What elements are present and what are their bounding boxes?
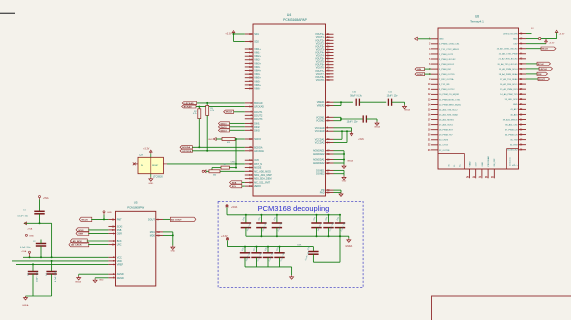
ground GND at U5 xyxy=(93,278,104,283)
wire DGND to GND xyxy=(95,277,108,279)
svg-text:19_A5_PWM_SCL0: 19_A5_PWM_SCL0 xyxy=(499,68,518,71)
U8 pin left 18 27_A13_SCK1 xyxy=(428,124,454,127)
global label BCKDA xyxy=(180,146,192,150)
svg-text:GND: GND xyxy=(482,162,484,167)
svg-text:PAD: PAD xyxy=(320,191,325,194)
svg-text:GND: GND xyxy=(342,181,347,183)
svg-text:DGND2: DGND2 xyxy=(316,173,325,176)
svg-text:4.7k: 4.7k xyxy=(210,110,214,112)
svg-text:35_TX8: 35_TX8 xyxy=(510,140,518,142)
power +5V at Teensy VIN xyxy=(555,30,565,35)
U4 pin 16 VIN2- xyxy=(245,59,261,62)
capacitor C22 0.1uF / 16v xyxy=(272,215,283,236)
svg-text:VCC2AD: VCC2AD xyxy=(315,130,325,133)
svg-text:26_A12_MOSI1: 26_A12_MOSI1 xyxy=(439,118,455,121)
global label LRCKDA xyxy=(180,149,192,153)
U4 pin 23 VIN5+ xyxy=(245,77,262,80)
svg-text:LRCLK: LRCLK xyxy=(540,69,548,71)
global label AD_BCK xyxy=(70,239,87,243)
capacitor C20 10uF / 16v xyxy=(241,215,252,236)
svg-text:GND: GND xyxy=(208,139,213,141)
svg-text:RST_N: RST_N xyxy=(254,163,262,166)
junction at SCKO wire xyxy=(235,138,237,140)
U4 pin 41 VOUT6+ xyxy=(315,64,333,67)
svg-text:12_PWM_MISO_MQSL: 12_PWM_MISO_MQSL xyxy=(439,104,462,106)
power +5VA in decoupling box xyxy=(226,205,238,209)
U8 pin right 36_PWM_CS xyxy=(505,134,526,136)
power GND flag at U5 top xyxy=(103,211,112,215)
wire C10 to C11 xyxy=(359,101,386,103)
U5 pin 8 DGND xyxy=(108,277,124,280)
junction R8 net xyxy=(211,170,213,172)
global label DAC1 xyxy=(218,122,229,126)
U4 pin 19 VREF1 xyxy=(317,101,334,104)
U8 pin right 16_A2_RX4_SCL1 xyxy=(500,83,526,86)
wire BCLK to label xyxy=(526,63,537,65)
U8 pin left 20 29_PWM_TX7 xyxy=(428,135,454,137)
svg-text:OSC: OSC xyxy=(231,162,236,164)
junction FMT xyxy=(103,218,105,220)
U4 pin 2 DOUT2 xyxy=(245,114,263,117)
svg-text:20_A6_TX5_LRCLK1: 20_A6_TX5_LRCLK1 xyxy=(498,63,519,66)
ground GND at R8 xyxy=(202,170,206,173)
wire decoupling bottom ground rail xyxy=(245,267,292,275)
junction VDD 2 xyxy=(51,256,53,258)
junction C30 gnd xyxy=(339,235,341,237)
svg-text:34_RX8: 34_RX8 xyxy=(510,145,518,147)
U4 pin 47 AGNDAD1 xyxy=(313,150,334,153)
ground GNDA decoupling right xyxy=(345,238,352,248)
wire VREF rail xyxy=(16,263,108,265)
U8 pin bottom GND xyxy=(479,162,484,179)
svg-text:10uF / 16v: 10uF / 16v xyxy=(36,271,38,282)
wire node horizontal xyxy=(24,223,52,257)
U8 pin right 19_A5_PWM_SCL0 xyxy=(499,68,526,71)
U5 pin 10 LRC xyxy=(108,244,121,247)
U4 pin 49 PD xyxy=(321,189,333,192)
svg-text:T+: T+ xyxy=(518,164,520,166)
U4 pin 52 MC_SCL_FMT xyxy=(245,181,271,184)
svg-text:VREF: VREF xyxy=(117,263,124,266)
U5 pin 6 DOUT xyxy=(148,218,163,221)
wire OSR label to pin xyxy=(88,232,108,234)
wire C30 to gnd rail xyxy=(313,236,340,262)
svg-text:+3.3V: +3.3V xyxy=(549,42,555,44)
svg-text:MD0: MD0 xyxy=(150,234,156,237)
svg-text:VIN1+: VIN1+ xyxy=(254,48,261,51)
global label AD_LRCK xyxy=(69,243,89,247)
wire VCC pins to +5VA xyxy=(334,128,352,143)
svg-text:SD1: SD1 xyxy=(254,33,259,36)
U4 pin 22 VIN4- xyxy=(245,73,261,76)
svg-text:MCLK: MCLK xyxy=(82,219,89,221)
U8 pin right 35_TX8 xyxy=(510,140,526,142)
junction C23 top xyxy=(316,214,318,216)
wire DAC2 to DIN2 xyxy=(230,126,245,128)
junction C22 top xyxy=(276,214,278,216)
U4 pin 24 VIN5- xyxy=(245,80,261,83)
U4 pin 61 OVF xyxy=(245,159,260,162)
svg-text:Teensy4.1: Teensy4.1 xyxy=(470,19,484,23)
wire DAC3 to DIN3 xyxy=(230,129,245,131)
svg-text:VIN2+: VIN2+ xyxy=(254,55,261,58)
U8 pin bottom 3.3V xyxy=(472,162,477,179)
wire DAC1 to DIN1 xyxy=(230,122,245,124)
wire vertical SCKO to osc net xyxy=(235,139,237,168)
resistor R7 xyxy=(221,164,229,169)
U4 pin 17 AGNDDA2 xyxy=(313,162,334,165)
svg-text:PCM1808PW: PCM1808PW xyxy=(127,205,144,209)
wire GND flag to FMT xyxy=(103,215,105,220)
svg-text:DOUT: DOUT xyxy=(417,74,424,76)
svg-text:AGND: AGND xyxy=(117,273,124,276)
resistor R2 xyxy=(193,107,201,119)
U8 pin right 3.3V xyxy=(513,43,526,46)
resistor R8 xyxy=(206,170,220,177)
power flag PWR xyxy=(539,37,541,39)
U4 pin 40 VOUT5- xyxy=(316,61,334,64)
power +5VA at U5 VCC xyxy=(21,250,31,257)
global label BCLK at U8 xyxy=(537,62,551,66)
wire cap C4 top stub xyxy=(51,261,53,272)
wire R3 to LRCKDA net xyxy=(206,115,208,150)
svg-text:DAC3: DAC3 xyxy=(221,129,228,132)
power +5VA at U4 xyxy=(350,131,364,141)
oscillator U7 body xyxy=(138,157,163,173)
svg-text:VIN4+: VIN4+ xyxy=(254,69,261,72)
U4 pin 8 VCC1AD xyxy=(315,127,334,130)
U4 pin 33 VOUT2+ xyxy=(315,39,333,42)
power GND flag left xyxy=(25,234,34,237)
svg-text:AD_DOUT: AD_DOUT xyxy=(171,218,182,221)
svg-text:32_OUT1B: 32_OUT1B xyxy=(439,150,450,152)
svg-text:VIN5-: VIN5- xyxy=(254,80,260,83)
svg-text:GND: GND xyxy=(107,212,112,214)
svg-text:GNDA: GNDA xyxy=(22,304,29,307)
svg-text:SCKO: SCKO xyxy=(254,138,261,141)
ground GND decoupling bottom xyxy=(290,275,294,279)
U8 pin bottom PROGRAM xyxy=(485,156,490,179)
U8 pin left 16 25_A11_RX6_SDA2 xyxy=(428,113,459,116)
svg-text:RESET: RESET xyxy=(152,165,159,167)
U4 pin 44 VOUT7- xyxy=(316,73,334,76)
wire VUSB stub xyxy=(526,33,532,35)
U8 pin left 22 31_CTX3 xyxy=(428,145,449,147)
svg-text:+3.3V: +3.3V xyxy=(225,34,232,36)
U4 pin 12 VREF2 xyxy=(317,104,334,107)
svg-text:GND: GND xyxy=(513,104,518,106)
U8 pin left 7 5_PWM_IN2 xyxy=(429,69,452,71)
svg-text:VIN3+: VIN3+ xyxy=(254,62,261,65)
wire R6 to SCKO pin xyxy=(235,138,245,140)
svg-text:MD1_AD1_MSP: MD1_AD1_MSP xyxy=(254,174,272,177)
wire C2 stubs xyxy=(40,240,42,258)
svg-text:BCLK: BCLK xyxy=(538,64,544,66)
wire +5VA rail top xyxy=(227,207,340,214)
U8 pin left 4 2_PWM_OUT2 xyxy=(429,53,454,56)
junction MD xyxy=(172,234,174,236)
svg-text:LRCKAD: LRCKAD xyxy=(254,106,264,109)
U4 pin 55 MC_AD0_MOD xyxy=(245,170,271,173)
U8 pin right 13_LED_SCK xyxy=(505,99,526,101)
wire SDA to pin xyxy=(242,181,245,183)
U4 pin 32 VOUT1- xyxy=(316,36,334,39)
svg-text:14_A0_PWM_TX3: 14_A0_PWM_TX3 xyxy=(500,93,518,96)
svg-text:U5: U5 xyxy=(134,200,138,204)
wire decoupling top row ground rail xyxy=(246,236,349,238)
capacitor C12 10uF xyxy=(347,115,367,123)
junction C26 top xyxy=(244,246,246,248)
svg-text:+3.3V: +3.3V xyxy=(143,149,150,151)
wire AD_BCK to BCK xyxy=(87,240,109,242)
global label MCLK at U8 xyxy=(541,47,556,51)
U8 pin left 3 1_TX1_CTX2_MISO1 xyxy=(429,49,460,51)
U4 pin 36 VOUT3- xyxy=(316,48,334,51)
U4 pin 34 VOUT2- xyxy=(316,42,334,45)
junction C21 top xyxy=(260,214,262,216)
resistor R3 xyxy=(206,103,214,116)
U8 pin left 10 8_TX2_IN1 xyxy=(428,84,451,86)
svg-text:SCL: SCL xyxy=(232,186,237,188)
global label SDA xyxy=(230,181,242,185)
U8 pin right GND xyxy=(513,38,526,41)
wire DIN to label xyxy=(526,73,537,75)
wire ground rail bottom-left xyxy=(26,295,52,297)
svg-text:MCLK: MCLK xyxy=(226,112,233,114)
svg-text:GND: GND xyxy=(513,39,518,41)
junction C27 top xyxy=(256,246,258,248)
junction gnd rail xyxy=(260,235,262,237)
wire cap C3 top stub xyxy=(32,264,34,271)
U8 pin bottom ON_OFF xyxy=(491,158,496,179)
junction +5VA node xyxy=(39,222,41,224)
wire flag to +5V arrow xyxy=(541,32,557,39)
wire +3.3V rail xyxy=(228,240,314,246)
svg-text:+5VA: +5VA xyxy=(231,205,237,209)
U8 pin right (VIN to 5V) VIN xyxy=(503,32,526,35)
power +3.3V in decoupling box xyxy=(221,235,229,240)
svg-text:DIN: DIN xyxy=(417,69,421,71)
svg-text:BCK: BCK xyxy=(117,240,122,243)
U4 pin 25 VIN6+ xyxy=(245,84,262,87)
wire BCKDA to pin xyxy=(192,146,245,148)
U4 pin 7 VCC2AD xyxy=(315,130,334,133)
U4 pin 51 ZERO xyxy=(245,185,261,188)
svg-text:GND: GND xyxy=(29,235,34,237)
wire C1 to node xyxy=(39,214,41,224)
global label DAC3 xyxy=(218,129,229,133)
wire R8 to U4 pin xyxy=(220,170,245,172)
U5 pin 1 OSR xyxy=(108,232,122,235)
svg-text:25_A11_RX6_SDA2: 25_A11_RX6_SDA2 xyxy=(439,113,459,116)
U4 pin 64 VCCDA2 xyxy=(315,141,334,144)
capacitor C26 100uF / 16v xyxy=(240,247,251,267)
U7 pin right OUT xyxy=(163,163,167,165)
svg-text:GNDA: GNDA xyxy=(347,160,353,163)
U4 pin 17 VIN3+ xyxy=(245,62,262,65)
svg-text:GND: GND xyxy=(439,39,444,41)
junction R7/vertical xyxy=(235,167,237,169)
wire DGND pins join xyxy=(334,170,345,175)
global label DOUT at U8 xyxy=(538,77,550,81)
wire C3 bottom xyxy=(32,274,34,296)
U4 pin 48 AGNDAD2 xyxy=(313,153,334,156)
svg-text:LRCKAD: LRCKAD xyxy=(184,102,194,105)
svg-text:28_PWM_RX7: 28_PWM_RX7 xyxy=(439,130,454,132)
global label OSR xyxy=(76,231,89,235)
ground GND at MD pins xyxy=(171,246,176,253)
junction VDD rail xyxy=(51,260,53,262)
capacitor C25 0.1uF / 16v xyxy=(335,215,346,236)
U8 pin right 39_A15_MISO1 xyxy=(503,118,526,121)
svg-text:OSR: OSR xyxy=(117,232,122,235)
svg-text:38_A14_CS1: 38_A14_CS1 xyxy=(505,123,518,126)
wire R2 to BCKDA net xyxy=(198,119,200,148)
svg-text:7_RX2_OUT1A: 7_RX2_OUT1A xyxy=(439,78,454,81)
U4 pin 57 DGND1 xyxy=(316,169,333,172)
svg-text:8_TX2_IN1: 8_TX2_IN1 xyxy=(439,84,450,86)
svg-text:DOUT3: DOUT3 xyxy=(254,118,263,121)
svg-text:LRCKDA: LRCKDA xyxy=(254,150,264,153)
svg-text:VCCDA2: VCCDA2 xyxy=(315,141,325,144)
svg-text:37_PWM_CS: 37_PWM_CS xyxy=(505,129,518,131)
svg-text:+5VA: +5VA xyxy=(43,197,49,200)
capacitor C30 0.1uF xyxy=(305,246,319,262)
global label SCL xyxy=(230,185,242,189)
svg-text:VIN6-: VIN6- xyxy=(254,87,260,90)
svg-text:PCM3168 decoupling: PCM3168 decoupling xyxy=(258,204,330,213)
svg-text:GND: GND xyxy=(171,250,176,252)
svg-text:3_PWM_LRCLK2: 3_PWM_LRCLK2 xyxy=(439,59,456,61)
U4 pin 10 LRCKAD xyxy=(245,106,264,109)
svg-text:40_A16: 40_A16 xyxy=(510,113,518,116)
U4 pin 56 MODE xyxy=(245,167,262,170)
U8 pin left 6 4_PWM_BCLK2 xyxy=(429,64,455,66)
ground GND at U8 pin1 xyxy=(415,37,431,40)
U4 pin 42 VOUT6- xyxy=(316,67,334,70)
wire +5VA to C1 xyxy=(39,199,41,211)
capacitor C23 1uF / 16v xyxy=(311,215,322,236)
svg-text:39_A15_MISO1: 39_A15_MISO1 xyxy=(503,118,519,121)
U8 pin bottom VBAT xyxy=(466,161,471,179)
global label DAC2 xyxy=(218,125,229,129)
svg-text:BCKAD: BCKAD xyxy=(254,102,263,105)
U4 pin 1 DOUT3 xyxy=(245,118,263,121)
svg-text:DOUT: DOUT xyxy=(539,79,546,81)
svg-text:+5VA: +5VA xyxy=(21,250,27,253)
U5 pin 14 FSB xyxy=(108,229,121,232)
junction C24 top xyxy=(328,214,330,216)
junction C2 top xyxy=(40,256,42,258)
U4 pin 33 SCKO xyxy=(245,138,261,141)
U5 pin 13 SCKI xyxy=(108,225,122,228)
global label LRCLK at U8 xyxy=(539,67,553,71)
wire AGND pins join xyxy=(334,151,345,165)
U8 pin left 13 11_PWM_MOSI_CTX1 xyxy=(428,99,461,101)
svg-text:VOUT8-: VOUT8- xyxy=(316,79,325,82)
Teensy USB section divider xyxy=(438,154,465,169)
U8 pin left 11 9_PWM_OUT1C xyxy=(428,89,455,91)
svg-text:0.1uF / 16v: 0.1uF / 16v xyxy=(20,247,31,249)
svg-text:AGNDDA2: AGNDDA2 xyxy=(313,162,325,165)
junction C20 top xyxy=(245,214,247,216)
svg-text:LRCKDA: LRCKDA xyxy=(182,150,192,153)
svg-text:16_A2_RX4_SCL1: 16_A2_RX4_SCL1 xyxy=(500,83,518,86)
wire MCLK1 to label xyxy=(526,48,541,50)
wire DOUT to label xyxy=(526,78,538,80)
svg-text:MC_SCL_FMT: MC_SCL_FMT xyxy=(254,181,270,184)
Teensy USB pin names xyxy=(449,163,462,166)
svg-text:(VIN to 5V) VIN: (VIN to 5V) VIN xyxy=(503,32,518,35)
capacitor C28 0.1uF / 16v xyxy=(263,247,274,267)
svg-text:22_A8_CTX1_PWM: 22_A8_CTX1_PWM xyxy=(499,53,518,56)
wire LRCKAD to pin xyxy=(197,102,245,104)
U5 pin 15 MD0 xyxy=(150,234,163,237)
svg-text:BCKDA: BCKDA xyxy=(182,146,190,149)
svg-text:VCC: VCC xyxy=(117,256,122,259)
svg-text:GND: GND xyxy=(99,280,104,282)
dashed box PCM3168 decoupling xyxy=(218,202,363,288)
svg-text:4.7uF / 16v: 4.7uF / 16v xyxy=(55,270,57,282)
junction LRCKDA/R3 xyxy=(206,150,208,152)
svg-text:+3.3V: +3.3V xyxy=(559,34,565,36)
separator line top-left xyxy=(0,12,15,14)
wire VIN to power flag xyxy=(526,38,538,40)
capacitor C4 4.7uF xyxy=(46,270,57,282)
U8 pin left 8 6_PWM_OUT1D xyxy=(429,74,455,76)
U4 pin 3 DIN1 xyxy=(245,122,261,125)
svg-text:VIN3-: VIN3- xyxy=(254,66,260,69)
wire R7 right to vertical xyxy=(229,167,236,169)
wire 3.3V pin xyxy=(526,43,546,45)
wire LRCLK to label xyxy=(526,68,539,70)
IC U8 Teensy4.1 body xyxy=(438,28,519,169)
svg-text:56uF / 6.3v: 56uF / 6.3v xyxy=(350,95,362,97)
svg-text:OVF: OVF xyxy=(254,159,259,162)
power +3.3V at Teensy xyxy=(545,39,555,44)
svg-text:MODE: MODE xyxy=(254,167,262,170)
U8 pin left 19 28_PWM_RX7 xyxy=(428,130,454,132)
svg-text:LRC: LRC xyxy=(117,244,122,247)
junction VREF xyxy=(340,101,342,103)
sheet outline bottom-right xyxy=(432,296,571,320)
ground GNDA at AGND xyxy=(342,160,354,169)
U8 pin right 18_A4_PWM_SDA0 xyxy=(499,73,526,76)
svg-text:VIN1-: VIN1- xyxy=(254,52,260,55)
U8 pin left 12 10_PWM_CS_MQSR xyxy=(428,94,460,96)
U4 pin 13 VIN1+ xyxy=(245,48,262,51)
svg-text:33_MCLK2: 33_MCLK2 xyxy=(507,150,518,152)
wire VREF pins join xyxy=(334,102,353,105)
U8 pin right 23_A9_CRX1_MCLK1 xyxy=(497,48,526,51)
global label MCLK xyxy=(224,110,234,114)
svg-text:30_CRX3: 30_CRX3 xyxy=(439,140,449,142)
U5 pin 3 AGND xyxy=(108,273,123,276)
svg-text:9_PWM_OUT1C: 9_PWM_OUT1C xyxy=(439,89,455,91)
ground GNDA at VREF caps xyxy=(403,105,411,112)
global label DIN at U8 xyxy=(415,68,425,72)
svg-text:4.7k: 4.7k xyxy=(193,113,197,115)
U8 pin right 14_A0_PWM_TX3 xyxy=(500,93,526,96)
svg-text:23_A9_CRX1_MCLK1: 23_A9_CRX1_MCLK1 xyxy=(497,48,519,51)
svg-text:U8: U8 xyxy=(475,15,479,19)
svg-text:10uF / 10v: 10uF / 10v xyxy=(347,121,359,123)
capacitor C10 56uF xyxy=(350,92,362,106)
wire AD_LRCK to LRC xyxy=(88,244,108,246)
svg-text:VIN5+: VIN5+ xyxy=(254,77,261,80)
wire SCL to pin xyxy=(242,185,245,187)
wire VCOM pins join xyxy=(334,117,364,120)
